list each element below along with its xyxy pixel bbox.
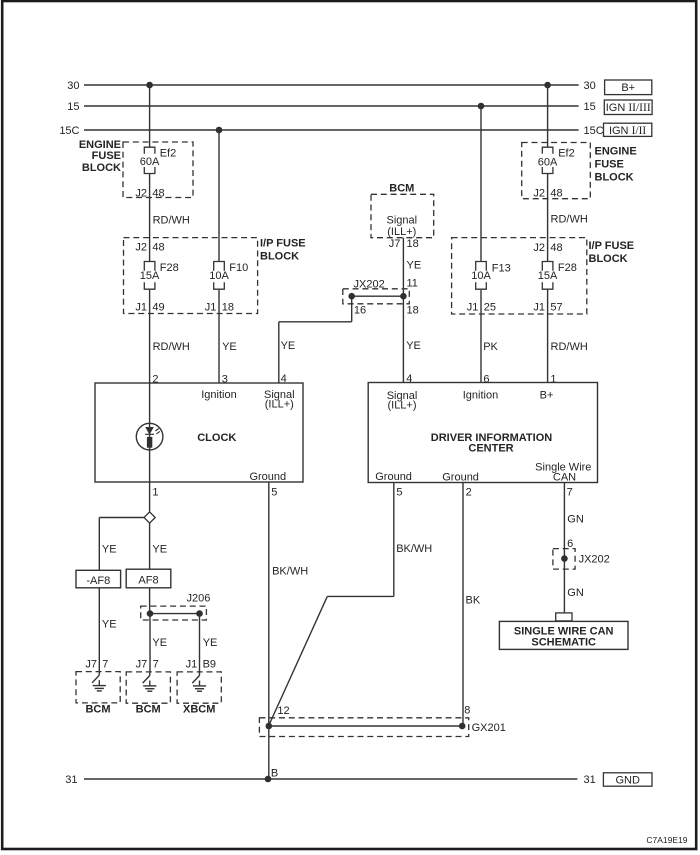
svg-text:GN: GN: [567, 587, 584, 599]
svg-text:Ef2: Ef2: [160, 147, 177, 159]
svg-text:15: 15: [67, 101, 79, 113]
svg-text:BK/WH: BK/WH: [272, 566, 308, 578]
svg-text:YE: YE: [102, 619, 117, 631]
svg-text:25: 25: [484, 302, 496, 314]
svg-text:JX202: JX202: [354, 278, 385, 290]
svg-text:B+: B+: [621, 82, 635, 94]
svg-text:J2: J2: [135, 241, 147, 253]
svg-text:FUSE: FUSE: [92, 150, 121, 162]
svg-text:6: 6: [483, 373, 489, 385]
svg-text:48: 48: [550, 187, 562, 199]
svg-text:GX201: GX201: [472, 722, 506, 734]
svg-text:18: 18: [222, 301, 234, 313]
svg-text:57: 57: [550, 302, 562, 314]
svg-text:F28: F28: [558, 262, 577, 274]
svg-text:30: 30: [67, 80, 79, 92]
svg-text:Ground: Ground: [249, 471, 286, 483]
svg-text:BK: BK: [466, 595, 481, 607]
svg-text:60A: 60A: [140, 156, 160, 168]
svg-text:IGN II/III: IGN II/III: [606, 102, 651, 114]
svg-text:B+: B+: [540, 390, 554, 402]
svg-text:YE: YE: [281, 340, 296, 352]
svg-text:15: 15: [584, 101, 596, 113]
svg-text:10A: 10A: [471, 270, 491, 282]
svg-text:RD/WH: RD/WH: [153, 214, 190, 226]
svg-text:J2: J2: [533, 187, 545, 199]
svg-text:RD/WH: RD/WH: [153, 341, 190, 353]
svg-text:YE: YE: [203, 637, 218, 649]
svg-text:10A: 10A: [209, 270, 229, 282]
svg-text:CENTER: CENTER: [468, 443, 513, 455]
svg-text:1: 1: [152, 486, 158, 498]
svg-text:J1: J1: [205, 301, 217, 313]
svg-text:30: 30: [584, 80, 596, 92]
svg-text:(ILL+): (ILL+): [387, 226, 416, 238]
svg-text:J7: J7: [85, 658, 97, 670]
svg-text:GND: GND: [615, 775, 640, 787]
svg-text:J1: J1: [186, 658, 198, 670]
svg-text:FUSE: FUSE: [595, 159, 624, 171]
svg-text:F28: F28: [160, 262, 179, 274]
svg-text:XBCM: XBCM: [183, 704, 215, 716]
svg-text:BCM: BCM: [85, 704, 110, 716]
svg-text:RD/WH: RD/WH: [551, 214, 588, 226]
svg-text:RD/WH: RD/WH: [551, 341, 588, 353]
svg-text:48: 48: [550, 242, 562, 254]
svg-text:31: 31: [65, 774, 77, 786]
svg-text:5: 5: [271, 486, 277, 498]
svg-text:BCM: BCM: [136, 704, 161, 716]
svg-text:F13: F13: [492, 262, 511, 274]
svg-text:15A: 15A: [538, 270, 558, 282]
svg-text:48: 48: [152, 187, 164, 199]
svg-text:48: 48: [152, 241, 164, 253]
svg-text:YE: YE: [102, 544, 117, 556]
svg-text:2: 2: [466, 487, 472, 499]
svg-text:J1: J1: [533, 302, 545, 314]
svg-text:7: 7: [153, 658, 159, 670]
svg-text:C7A19E19: C7A19E19: [646, 835, 687, 845]
svg-text:Ground: Ground: [442, 471, 479, 483]
svg-text:(ILL+): (ILL+): [387, 400, 416, 412]
svg-text:Signal: Signal: [387, 214, 418, 226]
svg-text:Ignition: Ignition: [201, 389, 236, 401]
svg-text:11: 11: [407, 277, 418, 289]
svg-text:BLOCK: BLOCK: [260, 251, 299, 263]
svg-text:BLOCK: BLOCK: [589, 253, 628, 265]
svg-text:CAN: CAN: [553, 471, 576, 483]
svg-text:Ground: Ground: [375, 471, 412, 483]
svg-text:BLOCK: BLOCK: [595, 172, 634, 184]
svg-text:YE: YE: [152, 544, 167, 556]
svg-text:I/P FUSE: I/P FUSE: [589, 240, 635, 252]
svg-text:YE: YE: [406, 340, 421, 352]
svg-text:7: 7: [102, 658, 108, 670]
svg-text:YE: YE: [152, 637, 167, 649]
svg-text:16: 16: [354, 304, 366, 316]
svg-text:BK/WH: BK/WH: [396, 543, 432, 555]
svg-text:31: 31: [584, 774, 596, 786]
svg-text:15C: 15C: [59, 125, 79, 137]
svg-text:-AF8: -AF8: [86, 575, 110, 587]
svg-text:YE: YE: [222, 341, 237, 353]
svg-text:Ef2: Ef2: [558, 148, 575, 160]
svg-text:60A: 60A: [538, 157, 558, 169]
svg-text:18: 18: [407, 305, 419, 317]
svg-text:I/P FUSE: I/P FUSE: [260, 238, 306, 250]
svg-text:AF8: AF8: [138, 574, 158, 586]
svg-text:15C: 15C: [584, 125, 604, 137]
svg-text:49: 49: [152, 301, 164, 313]
svg-text:J2: J2: [135, 187, 147, 199]
svg-text:J206: J206: [187, 593, 211, 605]
svg-text:IGN I/II: IGN I/II: [609, 125, 646, 137]
svg-text:BLOCK: BLOCK: [82, 162, 121, 174]
svg-text:YE: YE: [407, 259, 422, 271]
svg-text:J1: J1: [467, 302, 479, 314]
svg-text:(ILL+): (ILL+): [265, 399, 294, 411]
svg-text:BCM: BCM: [389, 182, 414, 194]
svg-text:7: 7: [567, 487, 573, 499]
svg-text:B9: B9: [203, 658, 216, 670]
svg-text:8: 8: [464, 705, 470, 717]
svg-text:5: 5: [396, 487, 402, 499]
svg-text:J7: J7: [136, 658, 148, 670]
svg-text:1: 1: [550, 373, 556, 385]
svg-text:J2: J2: [533, 242, 545, 254]
svg-text:18: 18: [407, 238, 419, 250]
svg-text:J1: J1: [135, 301, 147, 313]
svg-text:J7: J7: [389, 238, 401, 250]
svg-text:JX202: JX202: [579, 554, 610, 566]
svg-text:CLOCK: CLOCK: [197, 432, 236, 444]
svg-text:ENGINE: ENGINE: [595, 146, 637, 158]
svg-text:F10: F10: [229, 262, 248, 274]
svg-text:PK: PK: [483, 341, 498, 353]
svg-text:Ignition: Ignition: [463, 390, 498, 402]
svg-text:B: B: [271, 768, 278, 780]
svg-text:12: 12: [277, 705, 289, 717]
svg-text:15A: 15A: [140, 270, 160, 282]
svg-text:GN: GN: [567, 514, 584, 526]
svg-text:SCHEMATIC: SCHEMATIC: [531, 637, 596, 649]
